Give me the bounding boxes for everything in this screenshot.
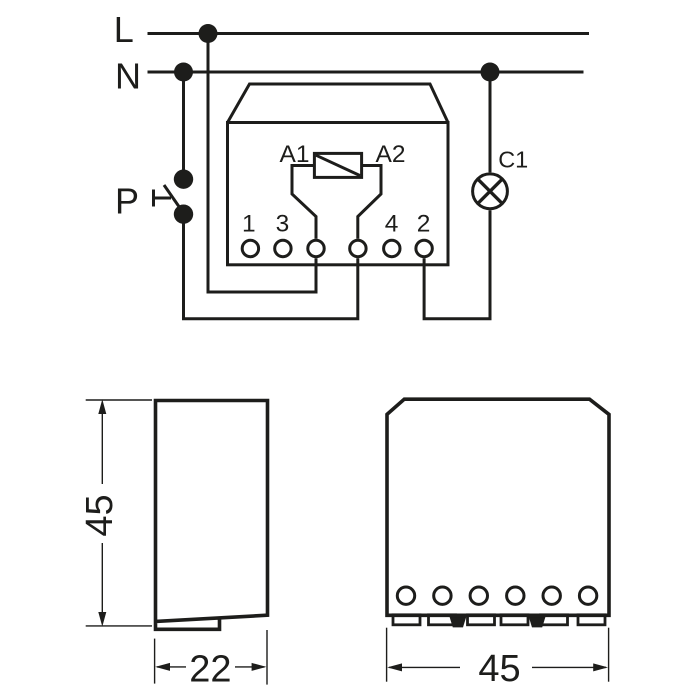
svg-text:P: P [115,181,139,222]
svg-text:A2: A2 [376,141,406,168]
svg-text:C1: C1 [498,147,528,173]
svg-text:45: 45 [478,648,520,690]
svg-text:4: 4 [385,211,399,238]
svg-text:3: 3 [276,211,290,238]
svg-text:45: 45 [79,494,121,536]
svg-text:A1: A1 [280,141,310,168]
svg-text:1: 1 [242,211,256,238]
svg-text:22: 22 [189,648,231,690]
svg-text:L: L [114,9,134,50]
svg-text:N: N [115,55,141,96]
svg-text:2: 2 [417,211,431,238]
